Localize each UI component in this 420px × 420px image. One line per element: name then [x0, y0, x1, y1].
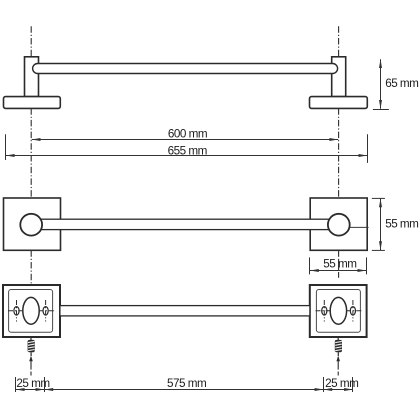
- svg-text:55 mm: 55 mm: [323, 257, 356, 270]
- dimension 55 mm horizontal line: [310, 270, 366, 272]
- screw hole left 2: [43, 307, 48, 315]
- centerline left middle: [30, 250, 32, 285]
- crosshair horizontal right: [316, 310, 363, 312]
- screw arrow left: [29, 356, 33, 362]
- mounting square right outer: [310, 285, 367, 337]
- post left (side view): [25, 57, 39, 97]
- centerline right upper: [338, 26, 340, 198]
- mounting plate left inner: [9, 290, 53, 333]
- screw right: [335, 340, 342, 356]
- big ellipse right: [330, 297, 346, 324]
- dimension 55 mm horizontal left tick: [309, 257, 311, 274]
- dimension 600 mm line: [32, 139, 339, 141]
- centerline left upper: [30, 26, 32, 198]
- dimension 55 mm vertical line: [380, 199, 382, 251]
- dimension 55 mm vertical bottom tick: [372, 249, 385, 251]
- bracket square right (front view): [310, 198, 367, 250]
- screw left: [28, 340, 35, 356]
- wall plate left (side view): [4, 97, 61, 109]
- dimension 655 mm left tick: [5, 134, 7, 160]
- svg-text:55 mm: 55 mm: [385, 218, 418, 231]
- bottom dim tick far left: [15, 377, 17, 392]
- hidden line right: [350, 226, 369, 228]
- screw hole left 1: [14, 307, 19, 315]
- svg-text:655 mm: 655 mm: [168, 145, 207, 158]
- bracket square left (front view): [4, 198, 61, 250]
- screw stem left: [30, 337, 32, 340]
- svg-text:25 mm: 25 mm: [16, 377, 49, 390]
- bottom dim tick 25/575 junction: [44, 377, 46, 392]
- crosshair vertical left hole 2: [45, 300, 47, 322]
- bottom dim tick 575/25 junction: [323, 377, 325, 392]
- crosshair vertical left hole 1: [16, 300, 18, 322]
- screw stem right: [337, 337, 339, 340]
- dimension 65 mm bottom tick: [373, 109, 389, 111]
- mounting square left outer: [3, 285, 60, 337]
- dimension 655 mm right tick: [367, 134, 369, 163]
- screw hole right 1: [322, 307, 327, 315]
- dimension 55 mm vertical top tick: [372, 197, 385, 199]
- screw hole right 2: [350, 307, 355, 315]
- towel bar (side view capsule): [33, 64, 338, 74]
- svg-text:575 mm: 575 mm: [167, 377, 206, 390]
- wall plate right (side view): [310, 97, 368, 109]
- big ellipse left: [23, 297, 39, 324]
- mounting plate right inner: [316, 290, 360, 333]
- towel bar (bottom view): [60, 306, 310, 316]
- post right (side view): [332, 57, 346, 97]
- post circle left (front view): [20, 214, 42, 236]
- dimension 655 mm line: [6, 155, 368, 157]
- screw arrow right: [336, 356, 340, 362]
- centerline right middle: [338, 251, 340, 257]
- crosshair vertical right hole 1: [323, 300, 325, 322]
- svg-text:600 mm: 600 mm: [168, 127, 207, 140]
- svg-text:65 mm: 65 mm: [385, 77, 418, 90]
- post circle right (front view): [328, 214, 350, 236]
- crosshair vertical right hole 2: [352, 300, 354, 322]
- dimension 65 mm line: [380, 59, 382, 109]
- bottom dim tick far right: [352, 377, 354, 392]
- bottom dimension line: [16, 389, 353, 391]
- dimension 55 mm horizontal right tick: [366, 257, 368, 274]
- svg-text:25 mm: 25 mm: [325, 377, 358, 390]
- crosshair horizontal left: [8, 310, 55, 312]
- towel bar (front view): [31, 219, 339, 229]
